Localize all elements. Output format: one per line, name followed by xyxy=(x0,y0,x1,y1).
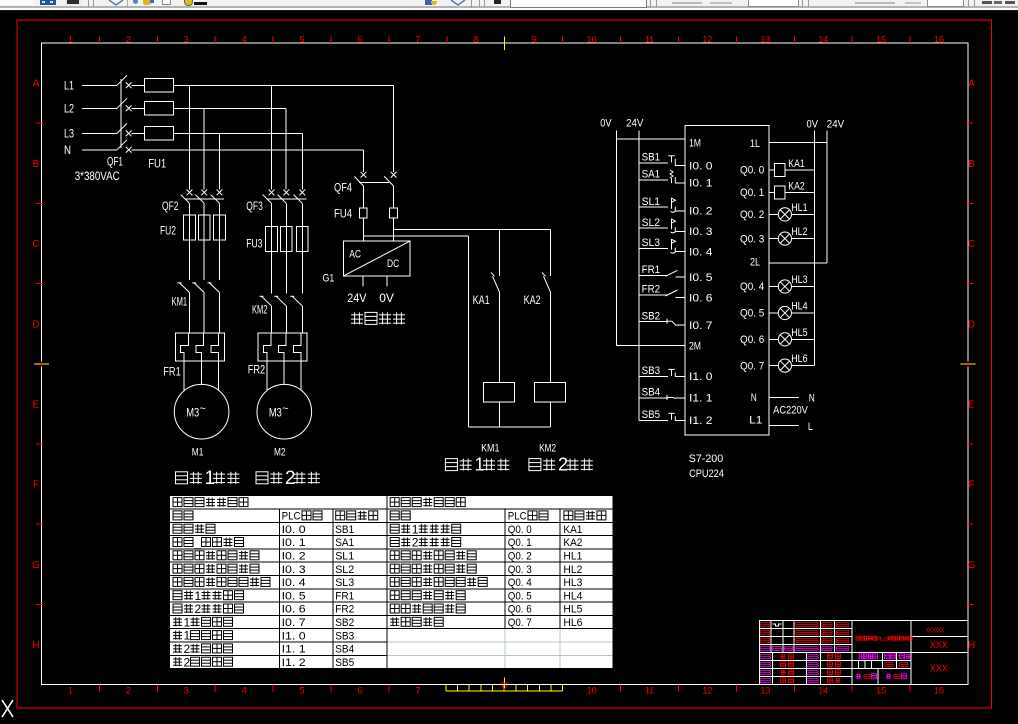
svg-text:1: 1 xyxy=(184,615,191,629)
breaker QF2 pole 2 xyxy=(195,190,207,216)
svg-text:I0. 2: I0. 2 xyxy=(282,551,306,563)
svg-text:I0. 6: I0. 6 xyxy=(282,604,306,616)
wire N terminal xyxy=(769,397,799,399)
wire tap L3 to QF2 xyxy=(219,133,221,189)
svg-text:KM1: KM1 xyxy=(481,443,499,455)
label pump1 motor under KM1 (CJK) xyxy=(445,455,509,475)
svg-text:D: D xyxy=(32,319,39,330)
IO table input row I0. 2 SL1 xyxy=(173,551,354,563)
label AC220V xyxy=(773,404,808,416)
svg-text:I0. 7: I0. 7 xyxy=(689,320,713,332)
terminal label I0.3 xyxy=(689,226,713,238)
IO table output row Q0. 4 HL3 xyxy=(390,577,582,589)
label S7-200 xyxy=(689,453,724,465)
svg-text:I1. 2: I1. 2 xyxy=(689,415,713,427)
svg-text:~: ~ xyxy=(282,403,288,415)
svg-text:FR1: FR1 xyxy=(335,590,354,602)
svg-text:2M: 2M xyxy=(689,341,701,353)
terminal label I1.2 xyxy=(689,415,713,427)
input FR2 to I0.6 xyxy=(639,284,685,298)
svg-text:I0. 5: I0. 5 xyxy=(282,590,306,602)
svg-text:QF1: QF1 xyxy=(107,155,123,169)
label KM1 xyxy=(172,295,188,309)
svg-text:H: H xyxy=(32,640,39,651)
svg-text:XXXXXX: XXXXXX xyxy=(926,628,944,635)
svg-text:AC220V: AC220V xyxy=(773,404,808,416)
svg-text:12: 12 xyxy=(702,686,712,696)
label FR1 xyxy=(163,364,181,378)
svg-text:G: G xyxy=(32,560,40,571)
svg-text:D: D xyxy=(968,319,975,330)
terminal label 1M xyxy=(689,138,701,150)
breaker QF3 linkage xyxy=(267,198,307,200)
svg-text:SL1: SL1 xyxy=(335,551,354,563)
output HL4 on Q0.5 xyxy=(769,301,815,320)
contactor KM2 contact 1 xyxy=(260,251,272,333)
svg-text:2: 2 xyxy=(184,655,191,669)
svg-text:Q0. 7: Q0. 7 xyxy=(740,360,764,372)
svg-text:SB3: SB3 xyxy=(335,630,354,642)
fuse FU1 element 1 xyxy=(132,79,174,93)
svg-text:Q0. 0: Q0. 0 xyxy=(740,165,764,177)
terminal label Q0.6 xyxy=(740,334,764,346)
svg-text:KA2: KA2 xyxy=(524,293,541,307)
label M2 xyxy=(274,447,286,459)
terminal label I0.2 xyxy=(689,206,713,218)
terminal label Q0.2 xyxy=(740,209,764,221)
svg-text:Q0. 5: Q0. 5 xyxy=(508,590,532,602)
svg-text:I0. 6: I0. 6 xyxy=(689,292,713,304)
svg-text:I0. 7: I0. 7 xyxy=(282,617,306,629)
svg-text:HL5: HL5 xyxy=(563,604,582,616)
terminal label 2M xyxy=(689,341,701,353)
breaker QF2 linkage xyxy=(185,198,224,200)
input SB3 to I1.0 xyxy=(639,365,685,377)
svg-text:1: 1 xyxy=(68,686,73,696)
svg-text:I0. 3: I0. 3 xyxy=(282,564,306,576)
svg-text:I1. 1: I1. 1 xyxy=(689,393,713,405)
contactor coil KM2 xyxy=(534,382,565,426)
title block row8 xyxy=(761,678,841,683)
svg-text:L3: L3 xyxy=(64,127,74,141)
svg-text:5: 5 xyxy=(300,35,305,45)
IO table input row I0. 0 SB1 xyxy=(173,524,354,536)
label M1 xyxy=(192,447,204,459)
wire 0V rail (left) xyxy=(615,130,617,345)
svg-text:2: 2 xyxy=(184,642,191,656)
breaker QF2 pole 1 xyxy=(181,190,193,216)
contactor KM2 contact 2 xyxy=(274,251,286,333)
svg-text:S7-200: S7-200 xyxy=(689,453,724,465)
label G1 xyxy=(323,273,335,285)
top ruler numbers xyxy=(68,35,944,45)
label pump2 motor under KM2 (CJK) xyxy=(529,455,593,475)
svg-text:Q0. 5: Q0. 5 xyxy=(740,308,764,320)
label 3*380VAC xyxy=(75,169,120,183)
title block grid xyxy=(759,621,968,685)
svg-text:KA2: KA2 xyxy=(788,180,804,192)
svg-text:6: 6 xyxy=(357,35,362,45)
breaker QF1 pole N xyxy=(82,140,132,153)
svg-text:HL4: HL4 xyxy=(563,590,582,602)
svg-text:SB5: SB5 xyxy=(642,409,661,421)
breaker QF3 pole 3 xyxy=(294,190,306,227)
svg-text:Q0. 2: Q0. 2 xyxy=(740,209,764,221)
title block row2 texts xyxy=(761,631,849,635)
svg-text:8: 8 xyxy=(473,35,478,45)
svg-text:HL2: HL2 xyxy=(791,226,807,238)
title block right XXX upper xyxy=(930,640,948,651)
svg-text:KM1: KM1 xyxy=(172,295,188,309)
top ruler ticks xyxy=(100,37,911,44)
wire L3 bus xyxy=(173,133,302,189)
svg-text:G: G xyxy=(968,560,976,571)
wire KA2 drop xyxy=(550,229,552,276)
title block row3 texts xyxy=(761,639,849,643)
label FU1 xyxy=(148,156,166,170)
wire N bus xyxy=(132,150,364,172)
svg-text:24V: 24V xyxy=(347,291,366,305)
motor M2 xyxy=(257,361,312,439)
svg-text:7: 7 xyxy=(415,686,420,696)
svg-text:FU1: FU1 xyxy=(148,156,166,170)
breaker QF3 pole 1 xyxy=(263,190,275,227)
svg-text:C: C xyxy=(32,239,39,250)
wire 24V rail to KA contacts xyxy=(394,228,551,230)
svg-text:1: 1 xyxy=(195,589,202,603)
svg-text:I0. 1: I0. 1 xyxy=(282,537,306,549)
title block row7 xyxy=(761,670,841,675)
svg-text:L: L xyxy=(808,421,813,433)
fuse FU2 element 2 xyxy=(198,215,210,240)
terminal label I1.1 xyxy=(689,393,713,405)
svg-text:_: _ xyxy=(194,536,202,550)
IO table input row I0. 3 SL2 xyxy=(173,564,354,576)
svg-text:16: 16 xyxy=(934,35,944,45)
terminal label 1L xyxy=(750,138,760,150)
svg-text:SB4: SB4 xyxy=(335,644,354,656)
wire tap L1 to QF2 xyxy=(189,85,191,189)
svg-text:SB2: SB2 xyxy=(642,310,661,322)
svg-text:HL2: HL2 xyxy=(563,564,582,576)
terminal label I0.7 xyxy=(689,320,713,332)
svg-text:I1. 1: I1. 1 xyxy=(282,644,306,656)
breaker QF1 linkage xyxy=(120,79,122,148)
svg-text:FU3: FU3 xyxy=(246,237,262,251)
fuse FU4 element 1 xyxy=(359,208,367,241)
svg-text:2: 2 xyxy=(126,35,131,45)
svg-text:I0. 3: I0. 3 xyxy=(689,226,713,238)
svg-text:SL1: SL1 xyxy=(642,196,661,208)
label 0V (supply) xyxy=(379,291,394,305)
svg-text:B: B xyxy=(968,159,975,170)
svg-text:FR2: FR2 xyxy=(248,363,266,377)
svg-text:Q0. 7: Q0. 7 xyxy=(508,617,532,629)
fuse FU4 element 2 xyxy=(390,208,398,241)
svg-text:16: 16 xyxy=(934,686,944,696)
svg-text:I0. 0: I0. 0 xyxy=(282,524,306,536)
terminal label Q0.0 xyxy=(740,165,764,177)
svg-text:SB4: SB4 xyxy=(642,387,661,399)
wire G1 output 24V stub xyxy=(362,276,364,287)
svg-text:I0. 1: I0. 1 xyxy=(689,178,713,190)
svg-text:PLC: PLC xyxy=(282,511,301,523)
svg-text:FU4: FU4 xyxy=(334,207,352,221)
svg-text:KA1: KA1 xyxy=(563,524,582,536)
input SB1 to I0.0 xyxy=(639,152,685,167)
wire tap L2 to QF2 xyxy=(203,108,205,189)
svg-text:HL6: HL6 xyxy=(791,353,807,365)
svg-text:HL1: HL1 xyxy=(563,551,582,563)
svg-text:SB2: SB2 xyxy=(335,617,354,629)
label QF2 xyxy=(162,199,179,213)
svg-text:E: E xyxy=(968,400,975,411)
svg-text:M3: M3 xyxy=(269,406,282,420)
power supply G1 box (AC/DC) xyxy=(344,241,410,276)
svg-text:1: 1 xyxy=(184,629,191,643)
svg-text:11: 11 xyxy=(645,686,654,696)
svg-text:I0. 2: I0. 2 xyxy=(689,206,713,218)
wire 24V rail (left) xyxy=(638,130,640,420)
svg-text:SL2: SL2 xyxy=(642,217,661,229)
fuse FU3 element 2 xyxy=(281,227,293,252)
output KA1 on Q0.0 xyxy=(769,158,815,176)
label L3 xyxy=(64,127,74,141)
svg-text:HL3: HL3 xyxy=(791,274,807,286)
breaker QF3 pole 2 xyxy=(278,190,290,227)
title block right XXX lower xyxy=(930,663,948,674)
svg-text:24V: 24V xyxy=(626,118,644,130)
svg-text:L2: L2 xyxy=(64,102,74,116)
breaker QF4 linkage xyxy=(359,181,389,183)
svg-text:XXX: XXX xyxy=(930,663,948,674)
IO table input row I1. 1 SB4 xyxy=(173,642,354,656)
left row ticks xyxy=(36,123,43,605)
fuse FU3 element 1 xyxy=(266,227,278,252)
svg-text:KA1: KA1 xyxy=(788,158,804,170)
svg-text:3: 3 xyxy=(184,686,189,696)
svg-text:QF4: QF4 xyxy=(334,180,352,194)
IO table output row Q0. 2 HL1 xyxy=(390,551,582,563)
output HL1 on Q0.2 xyxy=(769,202,815,221)
motor M1 xyxy=(174,361,229,439)
svg-text:L1: L1 xyxy=(64,79,74,93)
terminal label Q0.1 xyxy=(740,187,764,199)
svg-text:5: 5 xyxy=(300,686,305,696)
svg-text:N: N xyxy=(64,143,71,157)
wire 24V rail (right) xyxy=(826,131,828,264)
svg-text:HL5: HL5 xyxy=(791,327,807,339)
PLC S7-200 box xyxy=(685,126,769,436)
svg-text:I0. 5: I0. 5 xyxy=(689,272,713,284)
IO table input row I0. 4 SL3 xyxy=(173,577,354,589)
svg-text:XXX: XXX xyxy=(930,640,948,651)
contactor KM2 contact 3 xyxy=(290,251,302,333)
IO table header input (CJK) xyxy=(173,498,248,507)
terminal label N (inside) xyxy=(751,392,757,404)
fuse FU1 element 3 xyxy=(132,127,174,141)
fuse FU1 element 2 xyxy=(132,102,174,116)
svg-text:G1: G1 xyxy=(323,273,335,285)
svg-text:SB1: SB1 xyxy=(642,152,661,164)
svg-text:DC: DC xyxy=(387,258,399,270)
label 0V (right) xyxy=(807,118,819,130)
terminal label I0.4 xyxy=(689,247,713,259)
svg-text:13: 13 xyxy=(760,686,770,696)
label pump2 motor (CJK) xyxy=(256,468,320,489)
relay contact KA1 xyxy=(491,273,500,383)
IO table output row Q0. 1 KA2 xyxy=(390,536,582,550)
svg-text:2L: 2L xyxy=(750,257,760,269)
svg-text:1L: 1L xyxy=(750,138,760,150)
label KM2 xyxy=(252,302,268,316)
svg-text:14: 14 xyxy=(818,35,828,45)
terminal label Q0.7 xyxy=(740,360,764,372)
label L (right) xyxy=(808,421,813,433)
contactor coil KM1 xyxy=(483,382,514,426)
svg-text:4: 4 xyxy=(242,35,247,45)
svg-text:SL3: SL3 xyxy=(335,577,354,589)
terminal label 2L xyxy=(750,257,760,269)
wire 1L xyxy=(769,141,827,143)
fuse FU2 element 1 xyxy=(184,215,196,240)
terminal label Q0.3 xyxy=(740,233,764,245)
IO table input row I1. 2 SB5 xyxy=(173,655,354,669)
terminal label I0.6 xyxy=(689,292,713,304)
output HL6 on Q0.7 xyxy=(769,353,815,372)
svg-text:I0. 4: I0. 4 xyxy=(282,577,306,589)
svg-text:SL2: SL2 xyxy=(335,564,354,576)
label KA2 xyxy=(524,293,541,307)
IO table input row I0. 6 FR2 xyxy=(173,602,354,616)
wire 2M xyxy=(616,345,685,347)
input SL3 to I0.4 xyxy=(639,237,685,253)
terminal label Q0.4 xyxy=(740,281,764,293)
breaker QF1 pole L3 xyxy=(82,123,132,136)
svg-text:0V: 0V xyxy=(379,291,394,305)
svg-text:1: 1 xyxy=(68,35,73,45)
thermal relay FR1 xyxy=(175,333,224,361)
label KM2 (coil) xyxy=(539,443,556,455)
IO table header output (CJK) xyxy=(390,498,465,507)
terminal label I0.0 xyxy=(689,161,713,173)
label 24V (left) xyxy=(626,118,644,130)
label 24V (right) xyxy=(827,118,845,130)
terminal label I1.0 xyxy=(689,371,713,383)
input SB5 to I1.2 xyxy=(639,409,685,421)
svg-text:FR1: FR1 xyxy=(163,364,181,378)
label L1 xyxy=(64,79,74,93)
svg-text:M1: M1 xyxy=(192,447,204,459)
right center mark xyxy=(961,361,976,367)
svg-text:A: A xyxy=(33,79,40,90)
svg-text:SB1: SB1 xyxy=(335,524,354,536)
IO table output row Q0. 6 HL5 xyxy=(390,604,582,616)
left center mark xyxy=(34,361,49,367)
IO table input row I0. 1 SA1 xyxy=(173,536,354,550)
svg-text:HL3: HL3 xyxy=(563,577,582,589)
terminal label I0.1 xyxy=(689,178,713,190)
fuse FU3 element 3 xyxy=(297,227,309,252)
svg-text:L1: L1 xyxy=(749,415,762,427)
breaker QF4 pole 2 (L1) xyxy=(384,172,396,208)
label FU4 xyxy=(334,207,352,221)
input SB2 to I0.7 xyxy=(639,310,685,325)
label pump1 motor (CJK) xyxy=(176,468,240,489)
svg-text:QF3: QF3 xyxy=(246,199,263,213)
title block sheet count (magenta/red) xyxy=(856,674,907,679)
svg-text:Q0. 2: Q0. 2 xyxy=(508,551,532,563)
svg-text:Q0. 6: Q0. 6 xyxy=(740,334,764,346)
label QF3 xyxy=(246,199,263,213)
svg-text:KM2: KM2 xyxy=(539,443,556,455)
svg-text:KA1: KA1 xyxy=(473,293,490,307)
svg-text:SA1: SA1 xyxy=(642,169,661,181)
svg-text:2: 2 xyxy=(195,602,202,616)
title block row5 xyxy=(761,654,841,659)
IO table output row Q0. 0 KA1 xyxy=(390,522,582,536)
svg-text:2: 2 xyxy=(412,536,419,550)
svg-text:HL4: HL4 xyxy=(791,301,807,313)
svg-text:7: 7 xyxy=(415,35,420,45)
IO table input row I1. 0 SB3 xyxy=(173,629,354,643)
label 24V (supply) xyxy=(347,291,366,305)
svg-text:0V: 0V xyxy=(807,118,819,130)
svg-text:N: N xyxy=(809,393,815,405)
wire coil return bus xyxy=(468,426,550,428)
svg-text:FR2: FR2 xyxy=(335,604,354,616)
svg-text:KM2: KM2 xyxy=(252,302,268,316)
bottom scale bar (yellow) xyxy=(446,685,563,691)
label FU3 xyxy=(246,237,262,251)
input SB4 to I1.1 xyxy=(639,387,685,400)
IO table output row Q0. 5 HL4 xyxy=(390,590,582,602)
wire KA1 drop xyxy=(499,229,501,276)
svg-text:0V: 0V xyxy=(600,118,612,130)
title block row6 xyxy=(761,662,841,667)
IO table input row I0. 7 SB2 xyxy=(173,615,354,629)
label FR2 xyxy=(248,363,266,377)
right row letters xyxy=(968,79,976,651)
svg-text:Q0. 1: Q0. 1 xyxy=(740,187,764,199)
terminal label Q0.5 xyxy=(740,308,764,320)
left row letters xyxy=(32,79,40,651)
svg-text:H: H xyxy=(968,640,975,651)
label FU2 xyxy=(160,224,176,238)
input SL1 to I0.2 xyxy=(639,196,685,212)
breaker QF2 pole 3 xyxy=(211,190,223,216)
svg-text:SA1: SA1 xyxy=(335,537,354,549)
svg-text:AC: AC xyxy=(349,249,361,261)
IO table output row Q0. 7 HL6 xyxy=(390,617,582,629)
svg-text:10: 10 xyxy=(587,686,597,696)
IO table column headers xyxy=(173,511,606,523)
label QF4 xyxy=(334,180,352,194)
terminal label I0.5 xyxy=(689,272,713,284)
input FR1 to I0.5 xyxy=(639,264,685,277)
svg-text:24V: 24V xyxy=(827,118,845,130)
svg-text:3: 3 xyxy=(184,35,189,45)
label 0V (left) xyxy=(600,118,612,130)
svg-text:Q0. 3: Q0. 3 xyxy=(508,564,532,576)
svg-text:CPU224: CPU224 xyxy=(689,468,724,480)
IO table background xyxy=(170,496,613,669)
contactor KM1 contact 2 xyxy=(192,240,204,333)
svg-text:HL6: HL6 xyxy=(563,617,582,629)
svg-text:Q0. 4: Q0. 4 xyxy=(740,281,764,293)
svg-text:1: 1 xyxy=(475,455,485,475)
top center mark (yellow) xyxy=(504,37,506,50)
